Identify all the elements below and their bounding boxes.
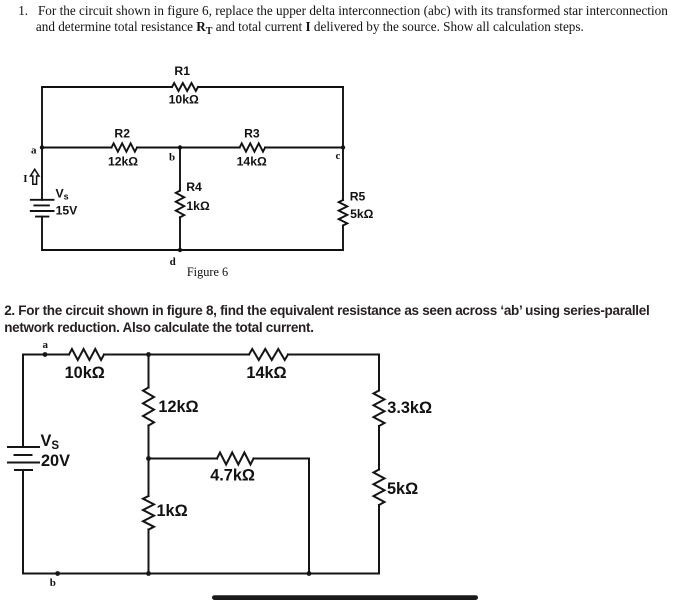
wire: circuit2 right side between 3.3k and 5k [378,426,380,470]
svg-text:b: b [50,577,56,589]
current arrow I (hollow up arrow) [30,169,39,184]
resistor 3.3kΩ (vertical right) [374,391,385,426]
svg-text:VS: VS [41,432,60,452]
svg-text:R4: R4 [186,180,202,194]
junction dot bottom at middle vertical [146,571,151,576]
svg-text:I: I [23,173,27,185]
wire: circuit1 branch R4 down to d [179,217,181,250]
svg-text:15V: 15V [56,204,79,218]
wire: circuit1 left side (a down to battery top) [41,148,43,200]
resistor 5kΩ (vertical right lower) [374,470,385,505]
junction dot middle wire [146,456,151,461]
svg-text:a: a [43,339,49,351]
wire: circuit1 right side R5 to bottom corner [342,226,344,251]
svg-text:Vs: Vs [56,187,69,202]
resistor 14kΩ (horizontal top-right) [249,349,288,360]
svg-text:d: d [170,256,176,268]
wire: circuit1 branch b down to R4 [179,148,181,191]
battery Vs 20V plates [8,447,39,470]
wire: circuit2 top side with 10k and 14k gaps [23,354,379,356]
svg-text:R1: R1 [174,64,190,78]
svg-text:b: b [169,152,175,164]
wire: circuit1 left side (battery bottom to bottom corner) [41,217,43,250]
svg-text:14kΩ: 14kΩ [246,364,286,382]
wire: circuit2 left side top (corner down to battery) [22,355,24,448]
wire: circuit1 middle horizontal a-b-c [42,147,343,149]
wire: circuit1 top side with R1 gap [42,86,343,88]
svg-text:3.3kΩ: 3.3kΩ [387,399,432,417]
node b junction dot [178,145,182,149]
svg-text:5kΩ: 5kΩ [350,207,374,221]
svg-text:12kΩ: 12kΩ [108,155,138,169]
resistor R1 10k (horizontal, top) [172,83,198,91]
resistor R4 1k (vertical at b-d) [176,191,184,218]
svg-text:Figure 6: Figure 6 [187,265,228,279]
wire: circuit2 right side top (corner to 3.3k) [378,355,380,391]
resistor R3 14k (horizontal, mid-right) [240,143,266,151]
svg-text:20V: 20V [41,452,70,470]
node a junction dot (circuit2) [43,352,48,357]
wire: circuit2 right side bottom (5k to bottom corner) [378,505,380,574]
svg-text:5kΩ: 5kΩ [387,480,418,498]
svg-text:14kΩ: 14kΩ [237,155,267,169]
wire: circuit2 middle horizontal with 4.7k gap [149,458,310,460]
svg-text:R2: R2 [114,127,130,141]
svg-text:10kΩ: 10kΩ [169,92,199,106]
svg-text:1kΩ: 1kΩ [157,502,188,520]
svg-text:10kΩ: 10kΩ [65,364,105,382]
wire: circuit2 vertical from mid wire down to bottom at x=309 [308,459,310,574]
bottom divider bar [212,595,478,600]
resistor 4.7kΩ (horizontal middle) [217,453,254,465]
svg-text:1kΩ: 1kΩ [186,199,210,213]
resistor 1kΩ (vertical middle lower) [143,496,154,530]
node a junction dot [40,145,44,149]
svg-text:R3: R3 [244,127,260,141]
wire: circuit2 bottom side [23,573,379,575]
wire: circuit2 middle vertical top (a-node to 12k) [148,355,150,388]
node c junction dot [341,145,345,149]
wire: circuit2 middle vertical between mid wire and 1k [148,459,150,497]
svg-text:4.7kΩ: 4.7kΩ [210,467,255,485]
battery Vs 15V plates [31,200,54,217]
wire: circuit1 right side c down to R5 [342,87,344,200]
node d junction dot [178,248,182,252]
resistor 10kΩ (horizontal top-left) [69,349,104,360]
svg-text:a: a [31,145,37,157]
wire: circuit2 left side bottom (battery to bottom corner) [22,470,24,574]
svg-text:c: c [336,150,341,162]
resistor 12kΩ (vertical middle) [143,388,154,426]
junction dot middle-top [146,352,151,357]
wire: circuit1 left side (top corner to a) [41,87,43,148]
wire: circuit1 bottom side [42,249,343,251]
resistor R5 5k (vertical right side) [339,200,348,225]
wire: circuit2 middle vertical between 12k and mid wire [148,426,150,459]
node b junction dot (circuit2) [55,571,60,576]
junction dot bottom at x=309 [307,571,312,576]
svg-text:R5: R5 [350,190,366,204]
resistor R2 12k (horizontal, mid-left) [112,143,138,151]
svg-text:12kΩ: 12kΩ [158,398,198,416]
wire: circuit2 middle vertical bottom (1k to bottom) [148,530,150,574]
